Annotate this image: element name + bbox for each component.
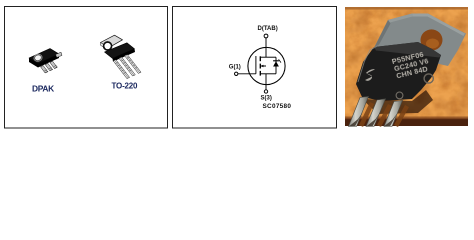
svg-text:D(TAB): D(TAB) [258,26,278,32]
svg-text:SC07580: SC07580 [263,103,292,110]
svg-text:G(1): G(1) [229,64,241,70]
svg-text:DPAK: DPAK [32,83,54,93]
svg-text:S(3): S(3) [261,95,272,101]
svg-text:TO-220: TO-220 [112,82,139,91]
